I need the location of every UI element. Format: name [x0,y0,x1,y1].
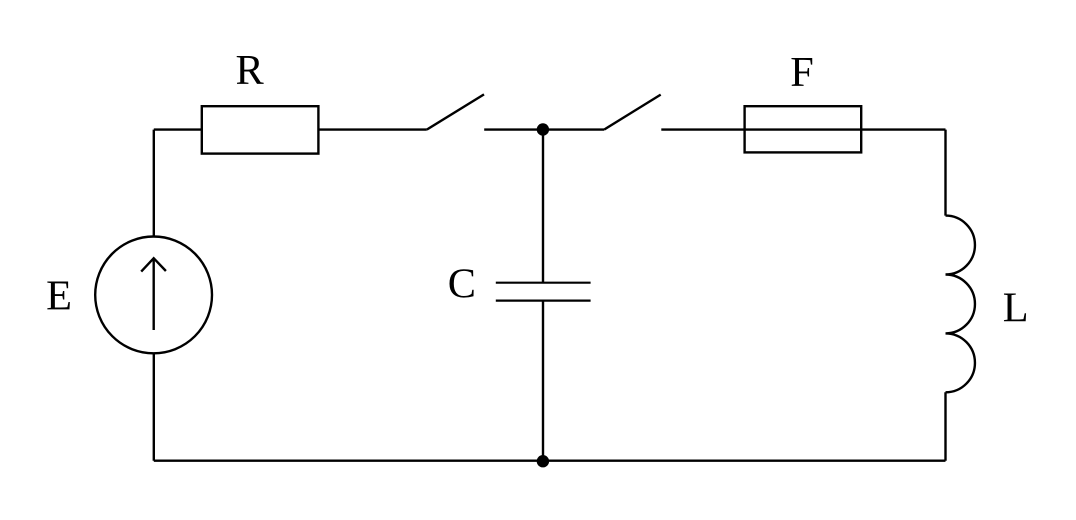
svg-text:L: L [1003,285,1029,332]
svg-text:R: R [235,47,264,94]
svg-text:C: C [448,260,476,307]
svg-text:F: F [790,49,814,96]
svg-text:E: E [46,273,72,320]
